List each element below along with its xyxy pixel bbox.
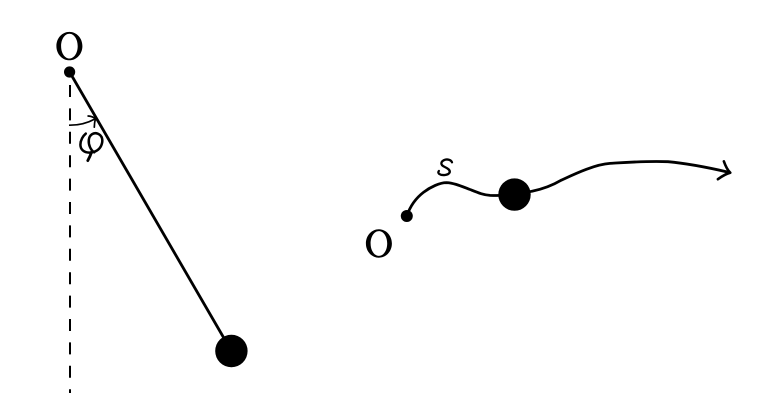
pendulum rod bbox=[70, 72, 232, 351]
point mass on trajectory bbox=[498, 178, 530, 210]
phi tail bbox=[88, 152, 92, 161]
angle arc arrowhead bbox=[88, 116, 95, 127]
label s (arc length) bbox=[438, 159, 452, 175]
pivot dot bbox=[64, 66, 75, 77]
trajectory start dot bbox=[401, 210, 413, 222]
dashed vertical reference line bbox=[69, 85, 71, 393]
label O (trajectory origin) bbox=[366, 229, 392, 257]
angle arc bbox=[69, 119, 95, 126]
trajectory curve bbox=[407, 161, 728, 216]
trajectory arrowhead bbox=[718, 161, 730, 179]
pendulum bob bbox=[215, 335, 247, 367]
label O (pendulum pivot) bbox=[56, 32, 82, 60]
label phi (angle) bbox=[80, 133, 102, 152]
